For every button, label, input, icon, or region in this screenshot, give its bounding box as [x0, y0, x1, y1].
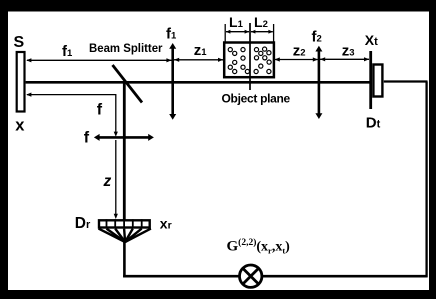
- svg-text:Object plane: Object plane: [222, 92, 291, 106]
- dimension line z (lens f to detector Dr): [114, 140, 118, 219]
- dimension line L1: [226, 30, 249, 34]
- source S plate: [17, 52, 25, 112]
- right rail wire down: [425, 82, 427, 278]
- object plane box: [224, 43, 274, 78]
- svg-text:f: f: [84, 130, 90, 147]
- detector Dr pixel bar: [99, 219, 150, 228]
- wire detector Dt to right rail: [384, 80, 428, 82]
- beam splitter diagonal: [113, 65, 143, 103]
- lens f in reflected arm (horizontal double arrow): [94, 134, 154, 141]
- dimension line f (S to lens f, horizontal part): [26, 93, 118, 137]
- dimension line z2 segment (object box to lens f2): [275, 57, 318, 61]
- dimension line z1 segment (lens f1 to object box): [174, 58, 223, 62]
- main optical axis wire: [26, 81, 370, 84]
- svg-text:Beam Splitter: Beam Splitter: [89, 41, 163, 55]
- correlator multiplier circle: [240, 265, 262, 287]
- detector Dr collection cone: [99, 229, 151, 242]
- lens f2 (vertical double arrow): [315, 46, 322, 119]
- lens f1 (vertical double arrow): [169, 43, 176, 120]
- svg-text:f: f: [97, 102, 103, 119]
- speckle dots left half: [228, 48, 249, 74]
- detector plane Xt axis line: [369, 51, 372, 109]
- object plane centre line: [249, 23, 251, 90]
- bottom rail wire to correlator: [123, 275, 427, 278]
- detector Dt body: [373, 65, 382, 97]
- svg-text:x: x: [15, 117, 25, 135]
- tick left (box top-left extension): [224, 24, 226, 42]
- dimension line z3 segment (lens f2 to detector plane): [320, 57, 369, 61]
- svg-text:S: S: [14, 34, 25, 51]
- speckle dots right half: [254, 47, 271, 74]
- dimension line L2: [251, 30, 273, 34]
- svg-text:z: z: [103, 173, 112, 190]
- dimension line f1 segment (S to lens f1): [26, 58, 171, 62]
- wire Dr down to bottom rail: [123, 242, 126, 277]
- reflected beam wire (beam splitter down to detector Dr): [123, 82, 126, 220]
- tick right (box top-right extension): [273, 24, 275, 42]
- svg-text:G(2,2)(xr,xt): G(2,2)(xr,xt): [227, 237, 291, 256]
